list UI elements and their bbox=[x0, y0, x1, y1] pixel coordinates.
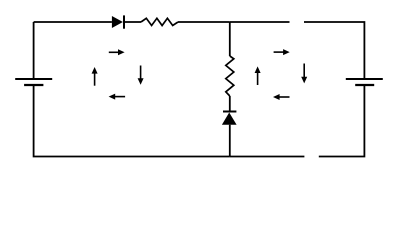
wire: resistor R1 to middle-branch junction bbox=[178, 21, 230, 23]
current arrow, right mesh left (pointing up) bbox=[255, 66, 261, 85]
wire: bottom gap to middle-branch junction bbox=[230, 156, 305, 158]
wire: resistor R2 to diode D2 cathode bbox=[229, 96, 231, 112]
current arrow, left mesh left (pointing up) bbox=[92, 67, 98, 86]
current arrow, right mesh right (pointing down) bbox=[301, 64, 307, 84]
battery V2 (right) bbox=[346, 79, 383, 85]
wire: middle-branch bottom junction left to battery V1, up to its negative terminal bbox=[34, 85, 230, 157]
wire: battery V1 positive terminal up the left side bbox=[33, 22, 35, 79]
wire: diode D1 cathode to resistor R1 bbox=[124, 21, 141, 23]
current arrow, right mesh top (pointing right) bbox=[274, 49, 290, 55]
resistor R2 (middle branch, vertical) bbox=[226, 56, 234, 96]
diode D1 (top, pointing right) bbox=[112, 15, 124, 28]
wire: diode D2 anode down to bottom junction bbox=[229, 125, 231, 157]
current arrow, left mesh right (pointing down) bbox=[138, 66, 144, 85]
wire: top-left horizontal, battery V1 positive terminal to diode D1 anode bbox=[34, 21, 112, 23]
wire: middle branch, top junction down to resistor R2 bbox=[229, 22, 231, 56]
current arrow, left mesh top (pointing right) bbox=[109, 49, 125, 55]
wire: top-right segment from gap to corner, down right side to battery V2 bbox=[304, 22, 364, 79]
wire: middle-branch junction to top gap (open terminal) bbox=[230, 21, 290, 23]
diode D2 (middle branch, pointing up) bbox=[222, 112, 237, 125]
current arrow, left mesh bottom (pointing left) bbox=[109, 94, 126, 100]
current arrow, right mesh bottom (pointing left) bbox=[273, 94, 290, 100]
resistor R1 (top) bbox=[141, 18, 178, 25]
wire: battery V2 negative terminal down and left to bottom gap bbox=[319, 85, 365, 157]
battery V1 (left) bbox=[15, 79, 52, 85]
